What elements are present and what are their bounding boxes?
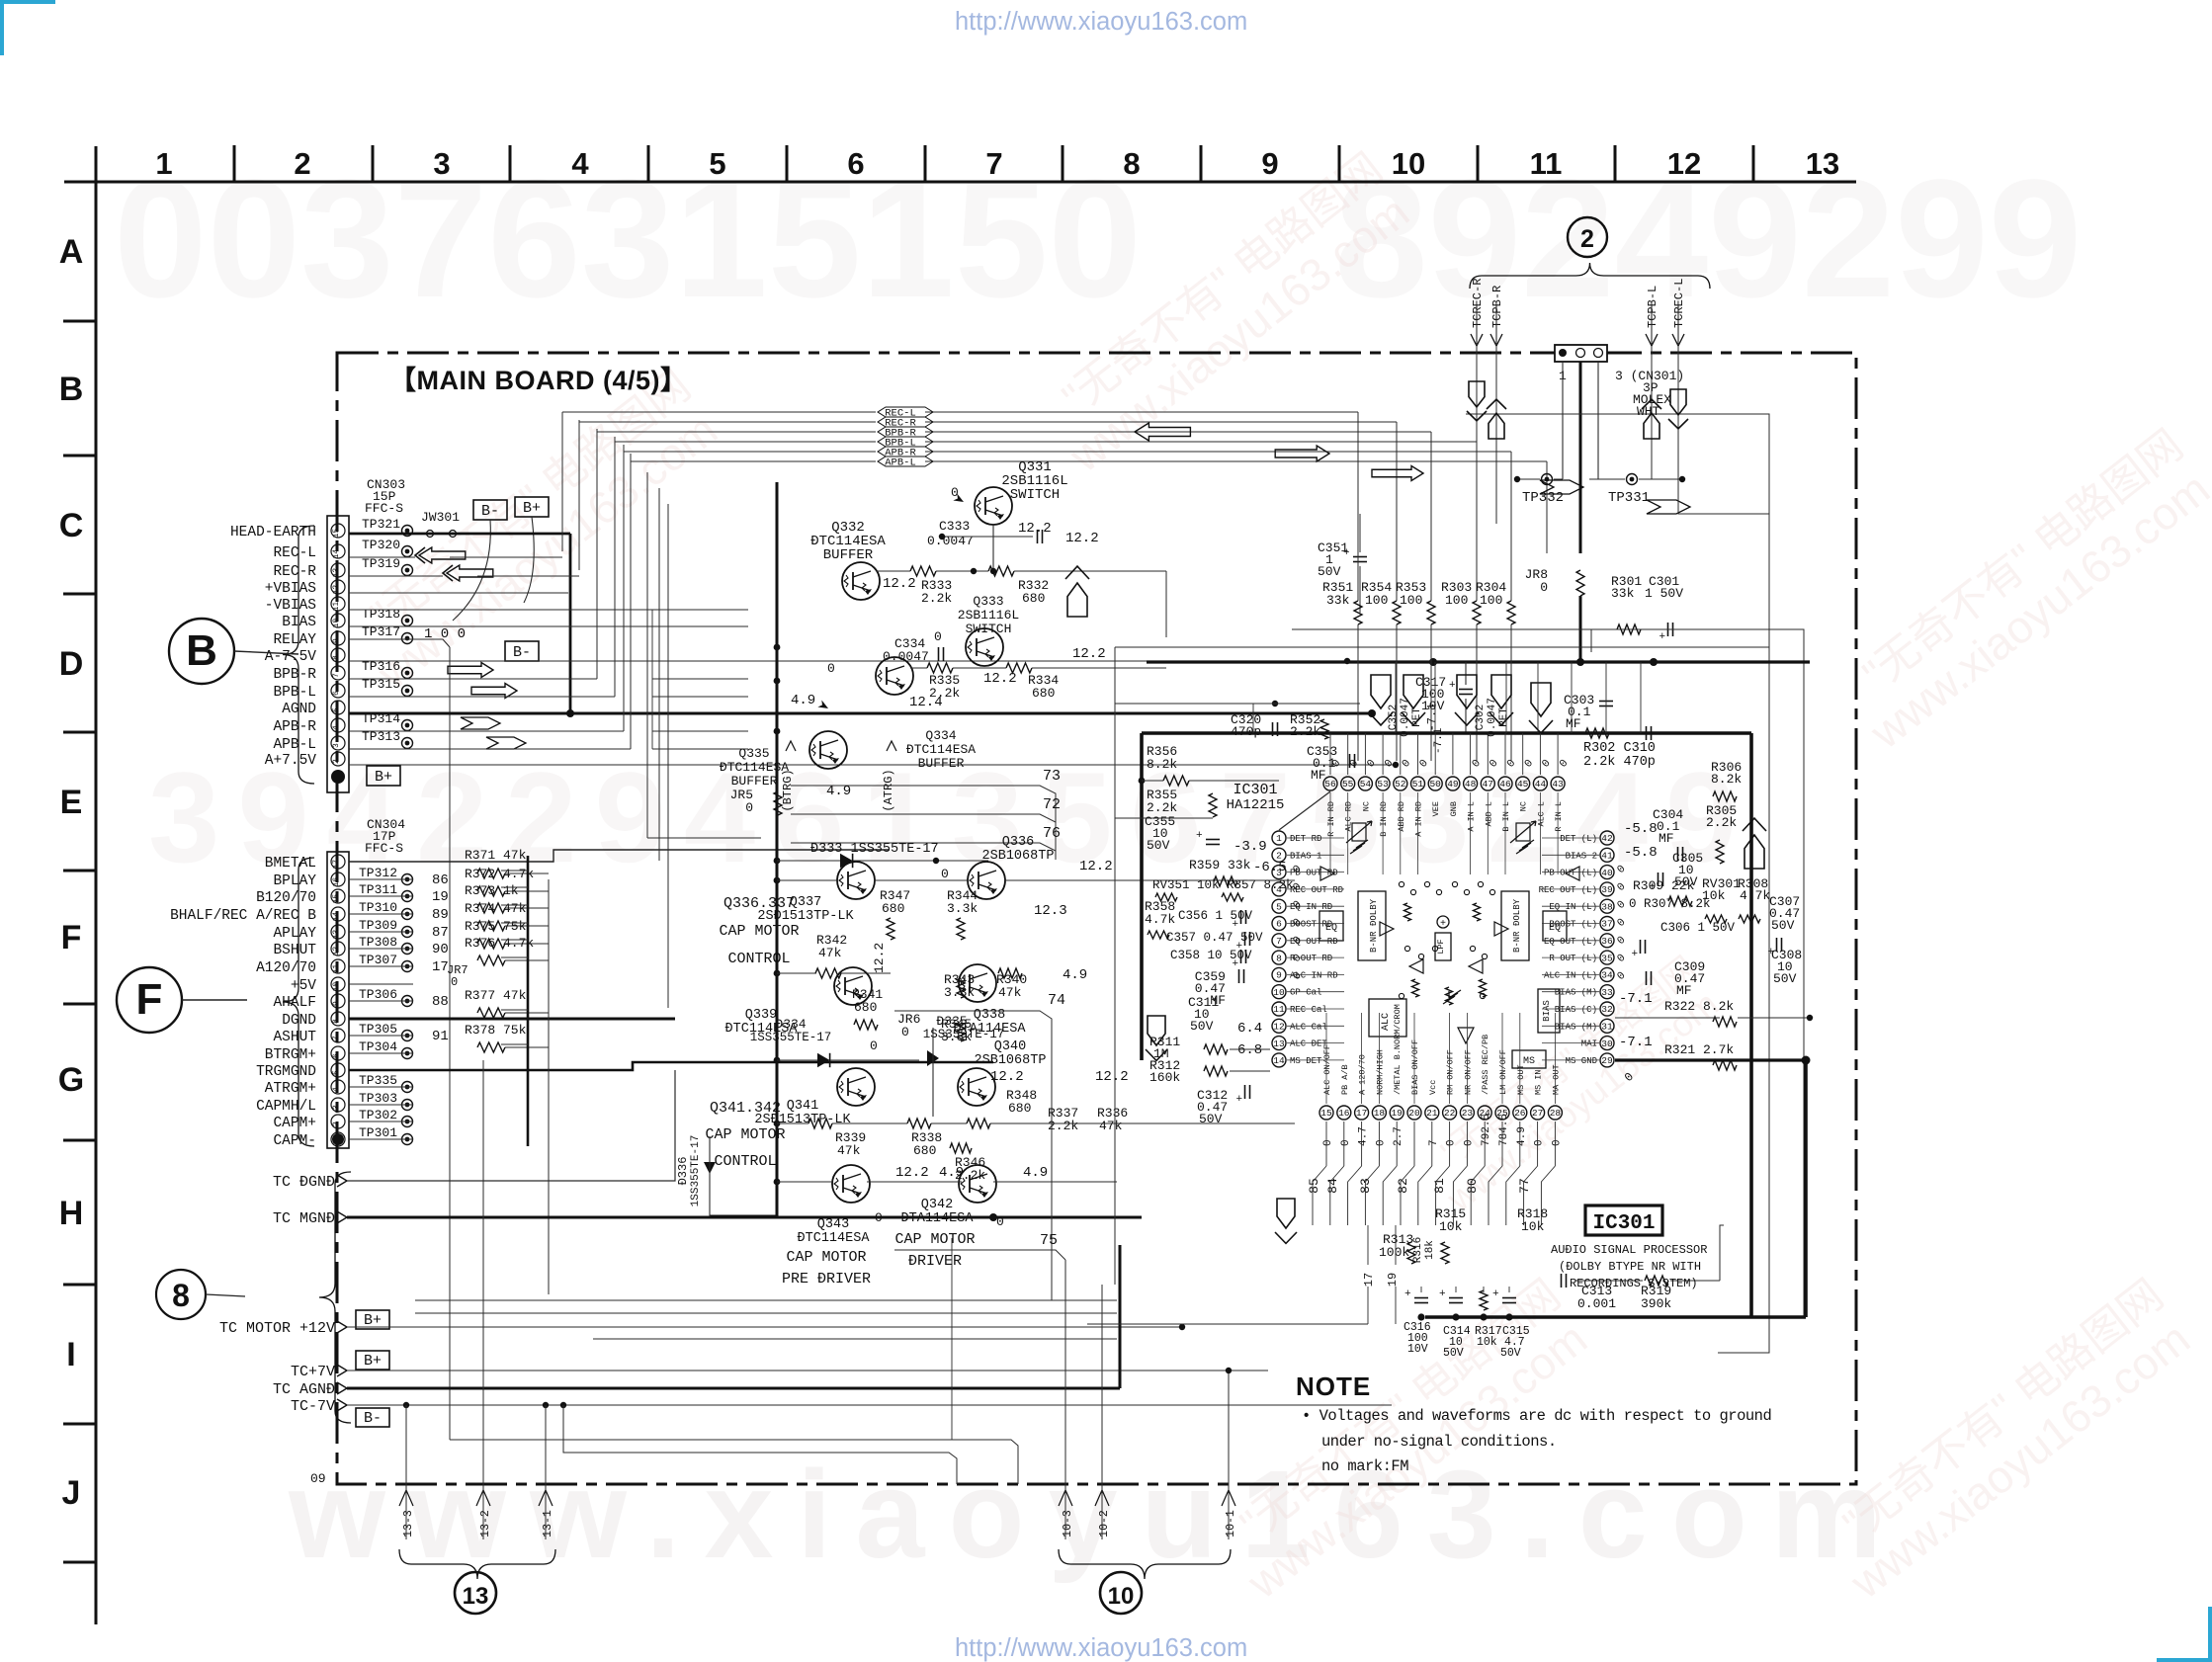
svg-text:Q338: Q338 [974, 1008, 1005, 1023]
IC301 surrounding thin box [1115, 646, 1769, 648]
svg-text:BIAS (M): BIAS (M) [1555, 1022, 1597, 1032]
connector CN303 pin 3 APB-L [331, 736, 345, 750]
IC301 pin 16 [1337, 1106, 1351, 1120]
svg-text:B+: B+ [375, 769, 392, 786]
wire BMETAL step [349, 850, 890, 862]
svg-text:MS IN: MS IN [1534, 1069, 1544, 1095]
svg-text:BUFFER: BUFFER [918, 756, 965, 771]
svg-text:81: 81 [1432, 1178, 1447, 1194]
brace for section F group [283, 858, 314, 1146]
svg-text:BHALF/REC A/REC B: BHALF/REC A/REC B [170, 908, 316, 924]
svg-text:/PASS REC/PB: /PASS REC/PB [1481, 1035, 1490, 1095]
wire B- curve down [453, 520, 490, 621]
test point TP318 [402, 616, 413, 626]
svg-text:E: E [60, 784, 83, 821]
wire q341 row [777, 1122, 808, 1124]
svg-text:TC AGNĐ: TC AGNĐ [273, 1381, 335, 1398]
svg-text:16: 16 [1338, 1108, 1350, 1119]
svg-text:HEAD-EARTH: HEAD-EARTH [230, 525, 316, 540]
svg-text:10-1: 10-1 [1225, 1510, 1237, 1537]
svg-text:EQ OUT (L): EQ OUT (L) [1544, 937, 1597, 947]
wire AGND thick [349, 712, 1372, 715]
svg-text:R372 4.7k: R372 4.7k [465, 867, 534, 881]
test point TP306 [402, 996, 413, 1007]
test point TP309 [402, 927, 413, 938]
svg-text:http://www.xiaoyu163.com: http://www.xiaoyu163.com [955, 8, 1247, 36]
wires above top pins [1329, 733, 1331, 775]
svg-text:TP306: TP306 [359, 987, 397, 1002]
connector CN304 pin 5 TRGMGND [331, 1063, 345, 1077]
transistor Q334 DTC114ESA BUFFER [876, 657, 913, 695]
svg-text:-7.1: -7.1 [1619, 991, 1653, 1007]
wire long row A [415, 1299, 1117, 1301]
wire TCREC-L route [1678, 346, 1769, 514]
svg-text:3: 3 [332, 1105, 341, 1110]
svg-text:19: 19 [432, 889, 449, 905]
svg-text:34: 34 [1601, 970, 1613, 981]
svg-text:42: 42 [1601, 833, 1613, 844]
caps row under thick bus [1417, 1313, 1424, 1320]
svg-text:4.7: 4.7 [1358, 1126, 1370, 1146]
wire vertical drops left cluster [651, 610, 653, 749]
wires left IC п [1230, 1048, 1270, 1050]
IC301 pin 9 [1272, 967, 1286, 981]
svg-text:15: 15 [332, 894, 341, 904]
wire relay vertical long [449, 647, 451, 1440]
svg-text:R378 75k: R378 75k [465, 1023, 527, 1038]
svg-text:47k: 47k [837, 1143, 861, 1158]
svg-text:7: 7 [1428, 1139, 1440, 1146]
svg-text:CONTROL: CONTROL [714, 1153, 776, 1170]
svg-text:LM ON/OFF: LM ON/OFF [1498, 1049, 1508, 1095]
svg-text:76: 76 [1043, 825, 1061, 842]
svg-text:43: 43 [1552, 779, 1564, 789]
wire bus REC-R [579, 421, 876, 423]
svg-text:A 120/70: A 120/70 [1358, 1054, 1368, 1095]
svg-text:-5.8: -5.8 [1624, 845, 1658, 861]
svg-text:Q342: Q342 [921, 1198, 953, 1212]
svg-text:784.5: 784.5 [1498, 1114, 1510, 1146]
svg-text:13: 13 [463, 1583, 489, 1610]
IC301 reference label box [1585, 1205, 1662, 1235]
arrow BPB-L right outline [471, 684, 517, 699]
svg-text:21: 21 [1426, 1108, 1438, 1119]
IC301 pin 7 [1272, 934, 1286, 948]
brace for section B group [283, 526, 314, 784]
label B- boxed mid [505, 641, 539, 661]
wire TCPB-R route [1495, 415, 1497, 464]
IC301 pin 34 [1600, 967, 1614, 981]
svg-text:A IN RD: A IN RD [1414, 801, 1424, 837]
svg-text:Q335: Q335 [738, 746, 769, 761]
svg-text:6.8: 6.8 [1237, 1042, 1262, 1058]
IC301 ground hatch 3 [1516, 846, 1528, 854]
svg-text:4.7k: 4.7k [1740, 888, 1770, 903]
svg-text:33k: 33k [1611, 586, 1635, 601]
svg-text:45: 45 [1517, 779, 1529, 789]
svg-text:TC ĐGNĐ: TC ĐGNĐ [273, 1174, 335, 1191]
IC301 pin 10 [1272, 985, 1286, 999]
svg-text:9: 9 [1276, 970, 1282, 981]
svg-text:680: 680 [1032, 686, 1055, 701]
svg-text:18: 18 [1374, 1108, 1386, 1119]
svg-text:12.2: 12.2 [895, 1165, 929, 1181]
svg-text:23: 23 [1462, 1108, 1474, 1119]
svg-text:-7.1: -7.1 [1425, 704, 1439, 732]
svg-text:B-NR ĐOLBY: B-NR ĐOLBY [1512, 898, 1522, 953]
svg-text:A-7.5V: A-7.5V [265, 649, 317, 665]
IC301 pin 15 [1319, 1106, 1333, 1120]
svg-text:R321 2.7k: R321 2.7k [1664, 1042, 1734, 1057]
svg-text:13-1: 13-1 [542, 1510, 554, 1537]
IC301 pin 5 [1272, 899, 1286, 913]
svg-text:2SB1116L: 2SB1116L [958, 608, 1019, 623]
transistor Q331 2SB1116L SWITCH [975, 487, 1012, 525]
test point TP332 [1542, 474, 1553, 485]
test point TP301 [402, 1134, 413, 1145]
wire resistor join column [548, 879, 550, 1294]
svg-text:PET: PET [1498, 707, 1510, 727]
svg-text:87: 87 [432, 925, 449, 941]
svg-text:90: 90 [432, 942, 449, 957]
svg-text:51: 51 [1412, 779, 1424, 789]
svg-text:50V: 50V [1199, 1112, 1223, 1126]
svg-text:Đ336: Đ336 [676, 1157, 690, 1186]
svg-text:22: 22 [1444, 1108, 1456, 1119]
wires IC area horizontals [1115, 703, 1226, 705]
wire thick vertical at 577 [569, 534, 572, 713]
IC301 pin 8 [1272, 951, 1286, 964]
svg-text:TP309: TP309 [359, 918, 397, 933]
svg-text:B IN RD: B IN RD [1379, 801, 1389, 837]
svg-text:BTRGM+: BTRGM+ [265, 1047, 316, 1063]
svg-text:11: 11 [1530, 146, 1563, 181]
net arrow 13-1 [539, 1490, 553, 1506]
cyan corner mark bottom-right [2157, 1607, 2210, 1660]
svg-text:52: 52 [1395, 779, 1406, 789]
svg-text:+: + [1236, 1094, 1243, 1106]
svg-text:1SS355TE-17: 1SS355TE-17 [690, 1135, 702, 1207]
net arrow 10-3 [1059, 1490, 1072, 1506]
svg-text:+: + [1449, 680, 1456, 692]
IC301 pin 21 [1425, 1106, 1439, 1120]
svg-text:TC-7V: TC-7V [291, 1398, 335, 1415]
svg-text:50: 50 [1429, 779, 1441, 789]
wire BPB-R [349, 678, 597, 680]
net label BPB-R [878, 427, 933, 437]
svg-text:75: 75 [1040, 1232, 1058, 1249]
svg-text:36: 36 [1601, 936, 1613, 947]
svg-text:50V: 50V [1318, 564, 1341, 579]
svg-text:under no-signal conditions.: under no-signal conditions. [1321, 1433, 1557, 1451]
svg-text:0: 0 [1375, 1139, 1387, 1146]
connector CN303 pin 15 HEAD-EARTH [331, 524, 345, 538]
wires fanning from bottom pins [1313, 1166, 1326, 1225]
svg-text:73: 73 [1043, 768, 1061, 785]
IC301 internal MS box [1512, 1050, 1546, 1068]
svg-text:5: 5 [709, 146, 725, 181]
IC301 pin 48 [1464, 777, 1478, 790]
svg-text:0: 0 [1463, 1139, 1475, 1146]
svg-text:TP332: TP332 [1522, 490, 1564, 506]
svg-text:(ĐOLBY BTYPE NR WITH: (ĐOLBY BTYPE NR WITH [1559, 1260, 1701, 1274]
IC301 internal horizontal stubs right [1542, 837, 1599, 839]
svg-text:ĐTA114ESA: ĐTA114ESA [901, 1211, 975, 1226]
transistor Q342 DTA114ESA [959, 1165, 996, 1203]
svg-text:13-2: 13-2 [479, 1510, 492, 1537]
IC301 pin 32 [1600, 1002, 1614, 1016]
svg-text:B: B [59, 371, 84, 408]
svg-text:9: 9 [332, 1001, 341, 1006]
svg-text:Q334: Q334 [925, 728, 956, 743]
connector CN303 pin 8 A-7.5V [331, 648, 345, 662]
svg-text:12.2: 12.2 [872, 943, 887, 973]
wire long row C [593, 1338, 1117, 1340]
connector CN304 pin 4 ATRGM+ [331, 1080, 345, 1094]
IC301 pin 51 [1411, 777, 1425, 790]
svg-text:GP Cal: GP Cal [1290, 988, 1321, 998]
svg-text:7: 7 [332, 1036, 341, 1040]
wire bottom link 2 [563, 1405, 957, 1484]
net label APB-R [878, 447, 933, 457]
arrow chevron bus 1 [1540, 480, 1583, 494]
svg-text:TC MOTOR +12V: TC MOTOR +12V [219, 1320, 335, 1337]
svg-text:JW301: JW301 [421, 510, 460, 525]
arrow REC-L left outline [419, 547, 466, 563]
svg-text:7: 7 [985, 146, 1002, 181]
svg-text:TCPB-L: TCPB-L [1646, 286, 1659, 328]
IC301 internal ALC box [1369, 999, 1406, 1037]
svg-text:12.2: 12.2 [1065, 531, 1099, 546]
svg-text:792.5: 792.5 [1481, 1114, 1492, 1146]
connector CN303 pin 2 A+7.5V [331, 752, 345, 766]
svg-text:Q341.342: Q341.342 [710, 1100, 781, 1117]
IC301 pin 29 [1600, 1053, 1614, 1067]
svg-text:2: 2 [294, 146, 310, 181]
svg-text:15: 15 [332, 529, 341, 539]
svg-text:0: 0 [1446, 1139, 1458, 1146]
svg-text:33: 33 [1601, 987, 1613, 998]
wire APB-R [349, 730, 624, 732]
svg-text:R377 47k: R377 47k [465, 988, 527, 1003]
IC301 pin 18 [1372, 1106, 1386, 1120]
svg-text:R IN RD: R IN RD [1326, 801, 1336, 837]
svg-text:B-: B- [364, 1410, 382, 1427]
svg-text:8: 8 [172, 1278, 190, 1313]
test point TP313 [402, 738, 413, 749]
wire CN303 row extensions [652, 609, 748, 611]
connector CN303 pin 6 BPB-L [331, 684, 345, 698]
svg-text:54: 54 [1360, 779, 1372, 789]
IC301 pin 20 [1407, 1106, 1421, 1120]
connector CN303 pin 13 REC-R [331, 563, 345, 577]
wire 10-3 drop [1064, 1260, 1066, 1539]
svg-text:REC Cal: REC Cal [1290, 1005, 1327, 1015]
svg-text:32: 32 [1601, 1004, 1613, 1015]
IC301 pin 22 [1443, 1106, 1457, 1120]
svg-text:49: 49 [1447, 779, 1459, 789]
wire long verticals mid [951, 1238, 953, 1440]
wire bus BPB-L [615, 441, 876, 443]
connector CN304 pin 12 BSHUT [331, 942, 345, 956]
svg-text:BIAS: BIAS [1542, 1000, 1552, 1022]
svg-text:10k: 10k [1521, 1219, 1545, 1234]
svg-text:B+: B+ [523, 500, 541, 517]
wire TC AGND thick [347, 1387, 1120, 1390]
transistor Q337 2SB1513TP-LK [837, 862, 875, 899]
svg-text:Vcc: Vcc [1428, 1080, 1438, 1095]
svg-text:11: 11 [1273, 1004, 1285, 1015]
svg-text:50V: 50V [1771, 918, 1795, 933]
wire APB-L [349, 748, 631, 750]
watermark pink diagonal 5 [1414, 950, 1730, 1220]
svg-text:+: + [1233, 919, 1239, 931]
svg-text:8.2k: 8.2k [1711, 772, 1742, 787]
svg-text:http://www.xiaoyu163.com: http://www.xiaoyu163.com [955, 1634, 1247, 1662]
svg-text:FFC-S: FFC-S [365, 841, 403, 856]
arrow chevron bus 2 [1647, 500, 1690, 514]
IC301 pin 28 [1548, 1106, 1562, 1120]
test point TP308 [402, 944, 413, 955]
IC301 pin 19 [1390, 1106, 1404, 1120]
svg-text:3.3k: 3.3k [947, 901, 978, 916]
svg-text:TCREC-L: TCREC-L [1672, 279, 1686, 328]
IC301 pin 56 [1323, 777, 1337, 790]
connector CN303 pin 4 APB-R [331, 718, 345, 732]
svg-text:ASHUT: ASHUT [273, 1030, 316, 1045]
IC301 pin 50 [1428, 777, 1442, 790]
svg-text:NOTE: NOTE [1296, 1371, 1371, 1401]
svg-text:0: 0 [827, 661, 835, 676]
IC301 pin 27 [1531, 1106, 1545, 1120]
svg-text:37: 37 [1601, 919, 1612, 930]
connector CN303 pin 1 (filled) [331, 770, 345, 784]
svg-text:10V: 10V [1407, 1343, 1428, 1356]
svg-text:2: 2 [332, 1122, 341, 1126]
svg-text:390k: 390k [1641, 1296, 1671, 1311]
svg-text:HA12215: HA12215 [1227, 797, 1285, 813]
connector CN303 pin 14 REC-L [331, 544, 345, 558]
connector CN304 pin 1 CAPM- [331, 1132, 345, 1146]
svg-text:PB A/B: PB A/B [1340, 1064, 1350, 1095]
svg-text:2.2k: 2.2k [1290, 724, 1320, 739]
svg-text:1: 1 [155, 146, 172, 181]
arrow APB-R chevron [461, 717, 500, 729]
IC301 ground hatch 2 [1350, 846, 1362, 854]
svg-text:82: 82 [1396, 1178, 1410, 1194]
svg-text:/METAL B.NORM/CROM: /METAL B.NORM/CROM [1393, 1004, 1403, 1095]
svg-text:50V: 50V [1443, 1347, 1464, 1360]
svg-text:MS: MS [1523, 1056, 1535, 1067]
test point TP307 [402, 961, 413, 972]
svg-text:40: 40 [1601, 868, 1613, 878]
svg-text:0: 0 [745, 800, 753, 815]
svg-text:TRGMGND: TRGMGND [256, 1064, 316, 1080]
svg-text:2SB1068TP: 2SB1068TP [975, 1053, 1047, 1068]
test point TP303 [402, 1100, 413, 1111]
svg-text:12: 12 [332, 947, 341, 956]
svg-text:2.2k: 2.2k [929, 686, 960, 701]
svg-text:9: 9 [1261, 146, 1278, 181]
IC301 pin 31 [1600, 1019, 1614, 1033]
svg-text:0: 0 [451, 975, 458, 989]
wire REC-R to arrow [349, 575, 443, 577]
svg-text:+: + [1343, 547, 1350, 559]
svg-text:C: C [59, 507, 84, 544]
svg-text:+5V: +5V [291, 978, 316, 994]
wire TRGMGND step [349, 1062, 993, 1070]
svg-text:6: 6 [332, 1053, 341, 1058]
svg-text:A+7.5V: A+7.5V [265, 753, 317, 769]
IC301 trimmer right [1516, 823, 1530, 841]
svg-text:4.9: 4.9 [1023, 1165, 1048, 1181]
svg-text:ĐTC114ESA: ĐTC114ESA [798, 1231, 871, 1246]
brace for section 8 group [319, 1172, 351, 1423]
svg-text:15: 15 [1320, 1108, 1332, 1119]
circled sheet ref 13 [455, 1572, 496, 1614]
svg-text:0.0047: 0.0047 [927, 534, 974, 548]
svg-text:-VBIAS: -VBIAS [265, 598, 316, 614]
svg-text:RM ON/OFF: RM ON/OFF [1446, 1049, 1456, 1095]
svg-text:46: 46 [1499, 779, 1511, 789]
svg-text:160k: 160k [1149, 1070, 1180, 1085]
svg-text:NC: NC [1361, 801, 1371, 811]
svg-text:R359 33k: R359 33k [1189, 858, 1251, 873]
svg-text:F: F [136, 975, 163, 1024]
svg-text:FFC-S: FFC-S [365, 501, 403, 516]
wire 10-1 drop [1228, 1371, 1230, 1539]
svg-text:+VBIAS: +VBIAS [265, 581, 316, 597]
watermark pink diagonal 3 [1208, 1271, 1601, 1609]
svg-text:0 R307 8.2k: 0 R307 8.2k [1629, 897, 1711, 911]
IC301 pin 41 [1600, 848, 1614, 862]
IC301 pin 54 [1358, 777, 1372, 790]
svg-text:5: 5 [332, 707, 341, 712]
svg-text:3: 3 [433, 146, 450, 181]
svg-text:+: + [1439, 1288, 1446, 1300]
svg-text:RELAY: RELAY [273, 632, 316, 648]
svg-text:ALC IN (L): ALC IN (L) [1544, 970, 1597, 980]
net arrow 10-2 [1095, 1490, 1109, 1506]
svg-text:F: F [61, 919, 82, 956]
svg-text:100: 100 [1480, 593, 1502, 608]
wires below bottom pins [1325, 1122, 1327, 1166]
IC301 pin 37 [1600, 917, 1614, 931]
svg-text:B-: B- [513, 644, 531, 661]
svg-text:APB-R: APB-R [273, 719, 316, 735]
wire -VBIAS [349, 609, 652, 611]
test point TP305 [402, 1031, 413, 1041]
label B- boxed tc-7 [356, 1408, 389, 1427]
connector CN303 pin 12 +VBIAS [331, 580, 345, 594]
svg-text:0: 0 [875, 1210, 883, 1225]
svg-text:53: 53 [1377, 779, 1389, 789]
bus chevron up top [1067, 583, 1087, 617]
svg-text:MF: MF [1311, 768, 1326, 783]
svg-text:89: 89 [432, 907, 449, 923]
svg-text:EQ: EQ [1549, 923, 1561, 934]
svg-text:PET: PET [1411, 707, 1423, 727]
svg-text:680: 680 [882, 901, 904, 916]
IC301 internal triangles [1320, 867, 1334, 880]
svg-text:19: 19 [1391, 1108, 1403, 1119]
svg-text:BPLAY: BPLAY [273, 873, 316, 889]
IC301 pin 47 [1481, 777, 1494, 790]
svg-text:TP302: TP302 [359, 1108, 397, 1122]
IC301 pin 17 [1355, 1106, 1369, 1120]
arrow APB-L chevron [486, 737, 526, 749]
svg-text:(BTRG): (BTRG) [781, 769, 795, 811]
